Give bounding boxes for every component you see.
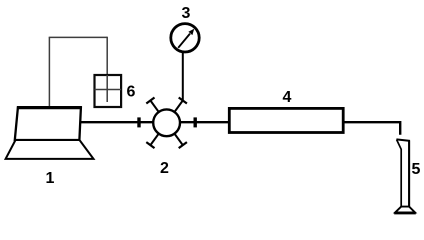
valve 2: tick on top-right spoke [179, 98, 187, 104]
valve 2: body circle [153, 109, 180, 136]
svg-text:3: 3 [181, 5, 190, 22]
collector 5: right wall [408, 141, 410, 208]
gauge 3: needle [178, 34, 190, 48]
recorder 1: thick top edge [17, 106, 82, 109]
valve 2: spoke to gauge (top-right port) [167, 101, 183, 123]
collector 5: foot base line [394, 212, 416, 214]
recorder 1: screen [15, 108, 81, 141]
svg-text:1: 1 [45, 170, 54, 187]
svg-text:4: 4 [283, 89, 292, 106]
svg-text:5: 5 [411, 161, 420, 178]
svg-text:6: 6 [126, 83, 135, 100]
valve 2: tick on top-left spoke [146, 98, 154, 104]
tick on line right of valve 2 [193, 117, 196, 127]
gauge 3: dial circle [171, 24, 199, 52]
gauge 3: needle arrowhead [188, 29, 194, 35]
valve 2: top-left spoke [150, 101, 166, 123]
main line: column 4 to collector 5 (with corner) [343, 122, 401, 135]
tick on line left of valve 2 [137, 117, 140, 127]
main line: recorder 1 to column 4 [80, 121, 231, 123]
wire: top horizontal run [49, 36, 107, 38]
valve 2: tick on bottom-right spoke [179, 142, 187, 148]
svg-text:2: 2 [160, 160, 169, 177]
valve 2: bottom-right spoke [167, 123, 183, 145]
column 4 [229, 108, 343, 132]
valve 2: bottom-left spoke [150, 123, 166, 145]
detector box 6 [95, 75, 122, 107]
detector 6 divider [95, 89, 122, 91]
collector cylinder 5: top rim [396, 139, 410, 141]
valve 2: tick on bottom-left spoke [146, 142, 154, 148]
wire: drop into detector box 6 [106, 37, 108, 102]
recorder 1: base [6, 140, 94, 159]
wire: recorder 1 top stub to junction [48, 37, 50, 107]
collector 5: left wall with lip [397, 140, 402, 208]
collector 5: foot [395, 207, 415, 213]
wire: gauge 3 stem down to valve port [182, 51, 184, 101]
detector 6 inner wire [106, 75, 108, 102]
